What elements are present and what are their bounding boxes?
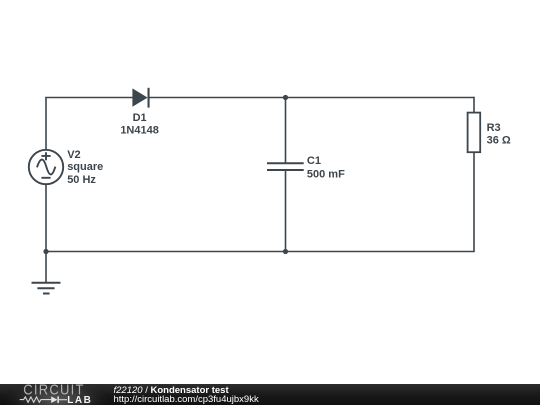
svg-text:500 mF: 500 mF [307, 169, 345, 181]
wire: V2 bottom to node C [45, 184, 47, 251]
CircuitLab logo [0, 384, 130, 405]
svg-text:1N4148: 1N4148 [120, 124, 159, 136]
wire: C1 top (node A down to top plate) [285, 98, 287, 164]
ground [32, 283, 61, 294]
logo resistor zigzag [20, 397, 52, 402]
svg-text:36 Ω: 36 Ω [487, 135, 511, 147]
wire: top horizontal (corner to D1 anode) [45, 97, 133, 99]
logo diode [51, 396, 57, 403]
svg-text:C1: C1 [307, 155, 321, 167]
svg-text:V2: V2 [67, 149, 80, 161]
footer logo glow [0, 384, 130, 405]
footer bar [0, 384, 540, 405]
label V2 [67, 149, 80, 161]
label R3 [487, 122, 501, 134]
diode D1 [132, 88, 149, 108]
voltage source V2 [29, 150, 63, 184]
label 50 Hz [67, 174, 96, 186]
wire: node A to top-right corner [286, 97, 475, 99]
label C1 [307, 155, 321, 167]
node B junction (bottom of C1) [283, 249, 288, 254]
wire: R3 bottom to bottom-right corner [286, 152, 475, 252]
svg-text:R3: R3 [487, 122, 501, 134]
wire: C1 bottom plate to node B [285, 170, 287, 252]
svg-text:D1: D1 [133, 112, 147, 124]
label 500 mF [307, 169, 345, 181]
svg-text:square: square [67, 161, 103, 173]
resistor R3 [468, 113, 481, 153]
node C junction (ground node) [43, 249, 48, 254]
wire: node C to ground [45, 252, 47, 283]
label 1N4148 [120, 124, 159, 136]
label D1 [133, 112, 147, 124]
node A junction (top of C1) [283, 95, 288, 100]
capacitor C1 [267, 163, 304, 170]
footer title text [114, 386, 259, 404]
label square [67, 161, 103, 173]
label 36 Ω [487, 135, 511, 147]
svg-text:LAB: LAB [67, 395, 92, 405]
wire: top-left vertical (corner to V2 top) [45, 98, 47, 151]
svg-text:50 Hz: 50 Hz [67, 174, 96, 186]
wire: top-right corner down to R3 [473, 97, 475, 113]
wire: D1 cathode to node A [150, 97, 286, 99]
wire: node B to node C (bottom horizontal) [46, 251, 286, 253]
